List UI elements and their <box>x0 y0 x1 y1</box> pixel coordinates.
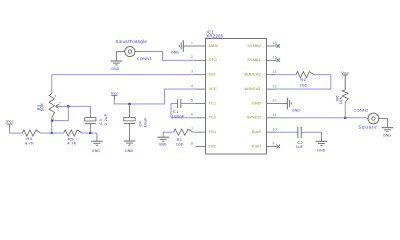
svg-text:7: 7 <box>191 127 193 131</box>
svg-text:BIAS: BIAS <box>252 129 261 134</box>
svg-text:R2: R2 <box>301 77 307 82</box>
svg-text:10K: 10K <box>176 142 184 147</box>
svg-text:TR2: TR2 <box>209 143 217 148</box>
svg-text:2: 2 <box>59 101 61 105</box>
svg-text:4: 4 <box>191 84 193 88</box>
svg-text:8: 8 <box>191 141 193 145</box>
svg-text:4.7K: 4.7K <box>25 141 34 146</box>
svg-text:FSKI: FSKI <box>252 143 261 148</box>
svg-text:10: 10 <box>272 127 277 131</box>
svg-text:Square: Square <box>358 125 377 130</box>
svg-text:CONN2: CONN2 <box>354 107 369 112</box>
svg-text:11: 11 <box>272 113 276 117</box>
svg-text:3: 3 <box>54 95 56 99</box>
svg-text:2: 2 <box>191 55 193 59</box>
svg-text:Vcc: Vcc <box>6 118 14 123</box>
svg-text:C3: C3 <box>98 119 103 125</box>
svg-text:WAVEA1: WAVEA1 <box>245 86 262 91</box>
svg-text:WAVEA2: WAVEA2 <box>245 72 262 77</box>
svg-text:16: 16 <box>272 41 277 45</box>
svg-text:GND: GND <box>111 67 119 71</box>
svg-text:Vcc: Vcc <box>341 70 349 75</box>
svg-text:C4: C4 <box>138 121 143 127</box>
svg-text:VCC: VCC <box>209 86 218 91</box>
svg-text:Sinus/Triangle: Sinus/Triangle <box>116 39 148 44</box>
svg-text:1: 1 <box>53 117 55 121</box>
svg-text:10uF: 10uF <box>142 117 147 128</box>
svg-text:GND: GND <box>292 109 300 113</box>
svg-text:SYMA2: SYMA2 <box>247 43 261 48</box>
svg-text:SYMA1: SYMA1 <box>247 57 261 62</box>
svg-text:GND: GND <box>171 50 179 54</box>
svg-text:GND: GND <box>317 148 325 152</box>
svg-text:CONN1: CONN1 <box>137 56 152 61</box>
svg-text:TC1: TC1 <box>209 100 217 105</box>
svg-text:15: 15 <box>272 56 277 60</box>
svg-text:9: 9 <box>272 142 274 146</box>
svg-text:1uF: 1uF <box>296 144 304 149</box>
svg-text:MO: MO <box>209 72 215 77</box>
svg-text:1: 1 <box>191 41 193 45</box>
svg-text:10K: 10K <box>338 96 343 104</box>
svg-text:GND: GND <box>159 143 167 147</box>
svg-text:Vcc: Vcc <box>111 90 119 95</box>
svg-text:2.2uF: 2.2uF <box>103 113 108 125</box>
svg-text:GND: GND <box>252 100 261 105</box>
svg-text:6: 6 <box>191 113 193 117</box>
svg-text:SYNCO: SYNCO <box>247 115 261 120</box>
svg-text:50K: 50K <box>40 103 45 111</box>
svg-text:13: 13 <box>272 84 277 88</box>
svg-text:12: 12 <box>272 99 277 103</box>
svg-text:GND: GND <box>383 133 391 137</box>
svg-text:14: 14 <box>272 70 277 74</box>
svg-text:TC2: TC2 <box>209 115 217 120</box>
svg-text:STO: STO <box>209 57 217 62</box>
svg-text:GND: GND <box>92 149 100 153</box>
svg-text:100nF: 100nF <box>172 114 185 119</box>
svg-text:200: 200 <box>300 82 308 87</box>
svg-text:4.7K: 4.7K <box>67 141 76 146</box>
svg-text:TR1: TR1 <box>209 129 217 134</box>
svg-text:AMSI: AMSI <box>209 43 219 48</box>
svg-text:3: 3 <box>191 70 193 74</box>
svg-text:5: 5 <box>191 98 193 102</box>
svg-text:XR2206: XR2206 <box>206 33 223 38</box>
svg-text:GND: GND <box>125 149 133 153</box>
